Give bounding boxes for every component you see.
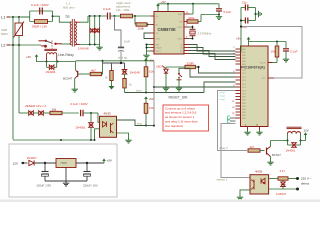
svg-text:4 k7: 4 k7 xyxy=(280,169,286,173)
svg-text:4N35: 4N35 xyxy=(255,169,263,173)
svg-text:OSC2: OSC2 xyxy=(177,39,183,41)
svg-text:INH: INH xyxy=(156,45,160,47)
svg-text:RA1: RA1 xyxy=(242,51,246,54)
svg-text:+5V: +5V xyxy=(149,59,154,63)
svg-text:RB0: RB0 xyxy=(242,97,246,99)
svg-text:pick up: pick up xyxy=(118,56,128,60)
svg-text:0.1uF / 400V: 0.1uF / 400V xyxy=(31,3,50,7)
svg-text:RB5: RB5 xyxy=(242,112,246,114)
svg-text:0.1uF: 0.1uF xyxy=(103,7,111,11)
svg-text:RB1: RB1 xyxy=(242,100,246,102)
svg-text:RA4: RA4 xyxy=(242,60,246,63)
svg-text:LED: LED xyxy=(156,65,162,69)
svg-text:BC547: BC547 xyxy=(63,77,73,81)
svg-text:relay1: relay1 xyxy=(220,91,227,94)
svg-text:and sensors 1,2,3,4,5,6: and sensors 1,2,3,4,5,6 xyxy=(165,111,197,115)
svg-text:RB2: RB2 xyxy=(242,103,246,105)
svg-text:relay 1: relay 1 xyxy=(219,146,228,150)
svg-text:PWDN: PWDN xyxy=(156,48,163,50)
svg-text:RC5: RC5 xyxy=(242,87,246,89)
svg-text:22p: 22p xyxy=(242,0,247,4)
svg-text:330k: 330k xyxy=(188,16,195,20)
svg-text:1N4007: 1N4007 xyxy=(27,156,38,160)
svg-text:RB7: RB7 xyxy=(242,118,246,120)
svg-text:RC3: RC3 xyxy=(242,80,246,82)
svg-text:1N4148: 1N4148 xyxy=(78,47,89,51)
svg-text:BC547: BC547 xyxy=(272,153,281,157)
svg-text:TR: TR xyxy=(65,15,70,19)
svg-text:100k: 100k xyxy=(138,27,145,31)
svg-text:IN-: IN- xyxy=(156,25,159,27)
svg-text:3.579MHz: 3.579MHz xyxy=(198,32,212,36)
svg-text:L1: L1 xyxy=(1,15,6,20)
svg-text:Line-Relay: Line-Relay xyxy=(58,53,74,57)
svg-text:RA5: RA5 xyxy=(242,63,246,66)
svg-text:RC4: RC4 xyxy=(242,84,246,86)
svg-text:RESET_SW: RESET_SW xyxy=(169,96,188,100)
svg-text:500V: 500V xyxy=(1,32,8,36)
svg-text:0.1uF: 0.1uF xyxy=(290,50,298,54)
svg-text:10k: 10k xyxy=(149,106,154,110)
svg-text:10k: 10k xyxy=(149,70,154,74)
svg-text:RB3: RB3 xyxy=(242,106,246,108)
svg-text:CM8870E: CM8870E xyxy=(158,27,176,32)
svg-text:MCLR: MCLR xyxy=(260,63,266,65)
svg-text:10uF: 10uF xyxy=(124,40,131,44)
svg-text:RB4: RB4 xyxy=(242,109,246,111)
svg-text:PIC16F876(A): PIC16F876(A) xyxy=(241,66,266,70)
svg-text:220 V ~: 220 V ~ xyxy=(301,177,312,181)
svg-text:1N4001: 1N4001 xyxy=(46,70,57,74)
svg-text:1N4007: 1N4007 xyxy=(276,192,287,196)
svg-text:RC1: RC1 xyxy=(242,73,246,75)
svg-text:RC7: RC7 xyxy=(242,94,246,96)
svg-text:OSC: OSC xyxy=(261,78,266,80)
svg-text:one required): one required) xyxy=(165,124,183,128)
svg-text:0.1uF: 0.1uF xyxy=(224,10,232,14)
svg-text:RA3: RA3 xyxy=(242,57,246,60)
svg-text:OSC1: OSC1 xyxy=(156,51,162,53)
svg-text:330R: 330R xyxy=(187,62,195,66)
svg-text:tone: tone xyxy=(136,88,142,92)
svg-text:4k7: 4k7 xyxy=(250,145,255,149)
svg-text:1N4001: 1N4001 xyxy=(76,126,87,130)
svg-text:relay1: relay1 xyxy=(220,98,227,101)
svg-text:and relay 1 (if more than: and relay 1 (if more than xyxy=(165,120,198,124)
svg-text:OSC1: OSC1 xyxy=(177,27,183,29)
svg-text:ZENER 12V x 2: ZENER 12V x 2 xyxy=(25,104,47,108)
svg-text:RC0: RC0 xyxy=(242,70,246,72)
svg-text:12V: 12V xyxy=(13,162,19,166)
svg-text:+5V: +5V xyxy=(236,37,241,41)
svg-text:600 ohm: 600 ohm xyxy=(63,6,75,10)
svg-text:RC2: RC2 xyxy=(242,77,246,79)
svg-text:RB6: RB6 xyxy=(242,115,246,117)
svg-text:+5V: +5V xyxy=(161,0,166,4)
svg-text:ESt: ESt xyxy=(179,21,183,24)
svg-text:220uF / 25V: 220uF / 25V xyxy=(37,184,52,188)
svg-text:10k: 10k xyxy=(52,107,57,111)
svg-text:10k: 10k xyxy=(271,50,276,54)
svg-text:ring: ring xyxy=(137,121,142,125)
svg-text:7805: 7805 xyxy=(60,161,67,165)
svg-text:+5V: +5V xyxy=(107,159,112,163)
svg-text:1N4001: 1N4001 xyxy=(286,149,297,153)
svg-text:1N4148: 1N4148 xyxy=(130,71,141,75)
svg-text:Connect up to 6 relays: Connect up to 6 relays xyxy=(165,106,196,110)
svg-text:relay1: relay1 xyxy=(220,95,227,98)
svg-text:12V: 12V xyxy=(304,129,309,133)
svg-text:as shown for sensor 1: as shown for sensor 1 xyxy=(165,115,195,119)
svg-text:VRef: VRef xyxy=(156,39,161,41)
svg-text:RA2: RA2 xyxy=(242,54,246,57)
svg-text:10k - 100k: 10k - 100k xyxy=(116,8,130,12)
svg-text:4k7: 4k7 xyxy=(91,68,96,72)
svg-text:L2: L2 xyxy=(1,43,6,48)
svg-text:detect: detect xyxy=(301,182,309,186)
svg-text:0.1uF / 400V: 0.1uF / 400V xyxy=(71,102,88,106)
svg-text:560R / 1W: 560R / 1W xyxy=(32,25,47,29)
svg-text:220uF / 16V: 220uF / 16V xyxy=(83,184,98,188)
svg-text:+5V: +5V xyxy=(26,55,31,59)
svg-text:RA0: RA0 xyxy=(242,48,246,51)
svg-text:StGT: StGT xyxy=(178,13,183,16)
svg-text:sensor 1: sensor 1 xyxy=(217,177,228,181)
svg-text:RC6: RC6 xyxy=(242,91,246,93)
svg-text:4N35: 4N35 xyxy=(104,112,112,116)
svg-text:+5V: +5V xyxy=(149,97,154,101)
